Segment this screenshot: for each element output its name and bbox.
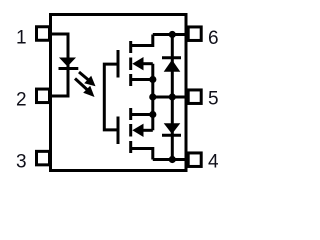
svg-text:5: 5: [208, 88, 219, 109]
svg-text:6: 6: [208, 28, 219, 49]
svg-text:1: 1: [16, 27, 27, 48]
svg-text:3: 3: [16, 151, 27, 172]
svg-text:4: 4: [208, 152, 219, 173]
svg-text:2: 2: [16, 89, 27, 110]
